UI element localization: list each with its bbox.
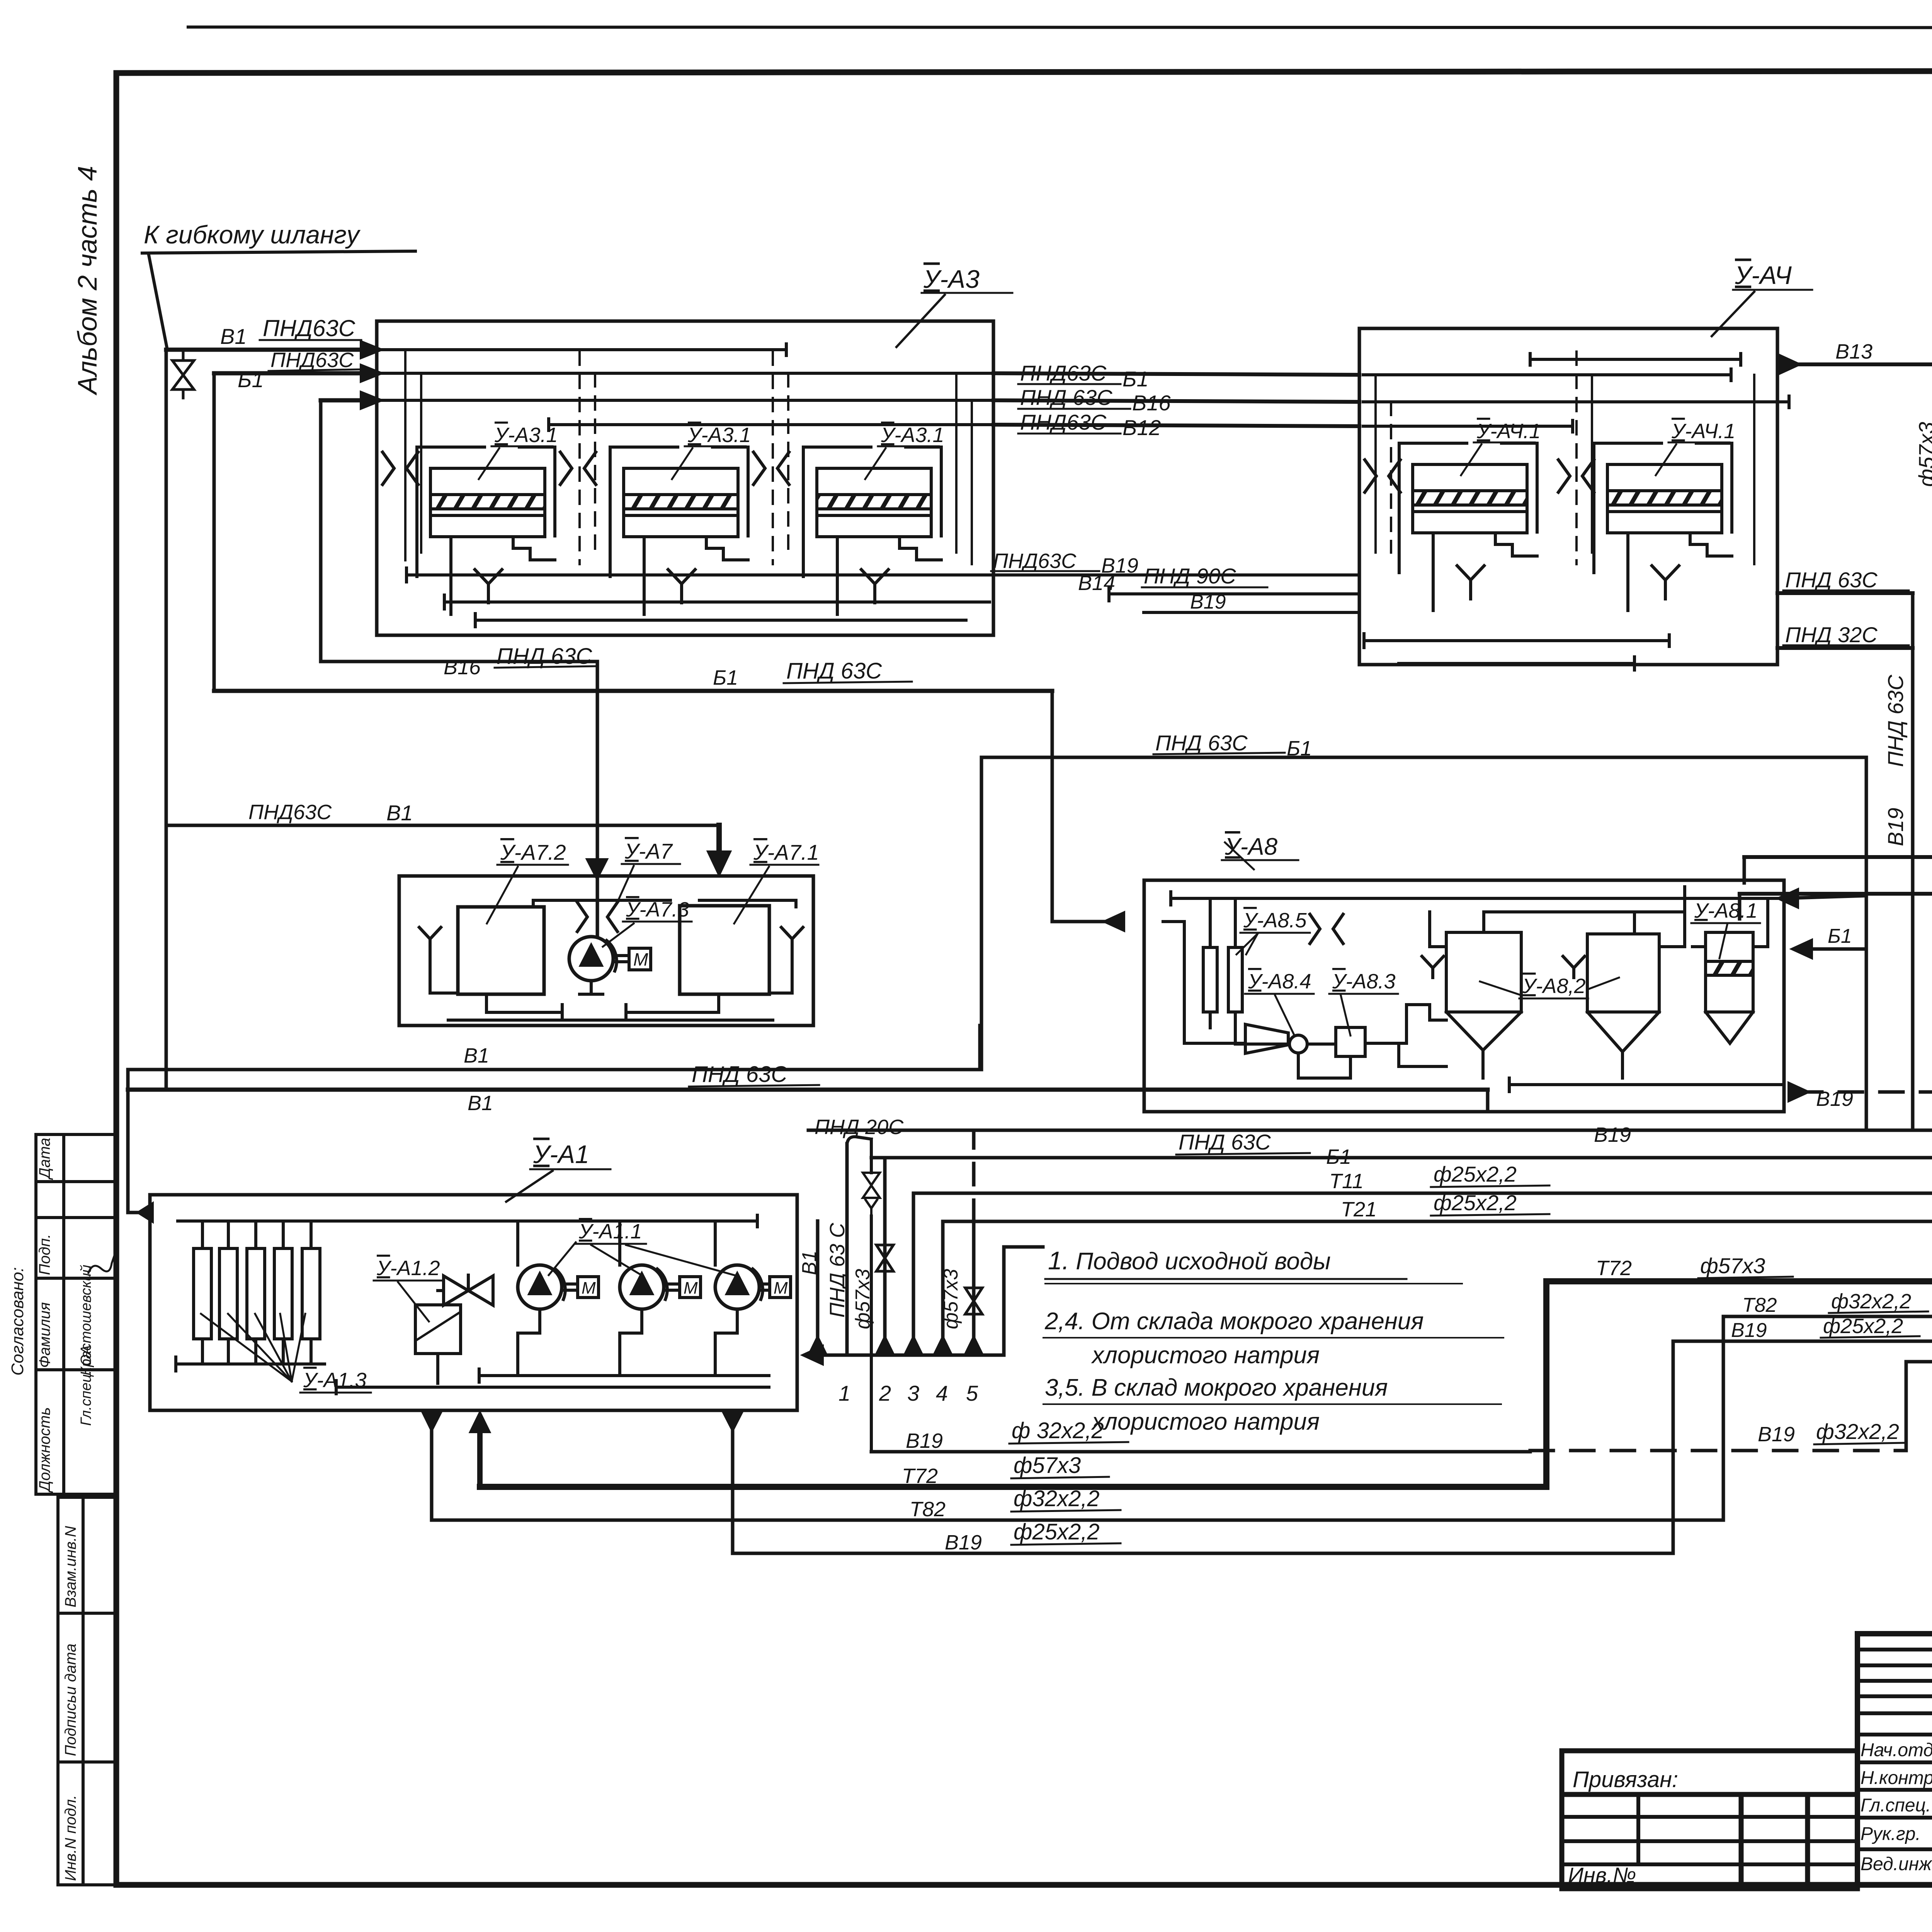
svg-text:В16: В16 [444, 656, 481, 679]
svg-text:ф32х2,2: ф32х2,2 [1816, 1419, 1899, 1444]
bus PND63S B19 lower [990, 549, 1359, 577]
bus Б1 through U-A3 [381, 372, 993, 375]
wire PND63S B1 upper bus [981, 731, 1866, 1070]
label V-A8.5 [1236, 909, 1310, 954]
svg-text:У-А3.1: У-А3.1 [494, 423, 558, 447]
U-A4 bottom manifold [1364, 634, 1669, 670]
Y marks on tanks [1422, 956, 1444, 978]
svg-text:Фамилия: Фамилия [36, 1302, 53, 1368]
svg-text:ф57х3: ф57х3 [940, 1269, 962, 1329]
svg-text:3: 3 [907, 1381, 919, 1405]
filter V-A3.1 unit 1 [417, 423, 558, 614]
U-A4 inner bus Б1 [1363, 369, 1731, 381]
block U-A1 [150, 1140, 797, 1410]
left stamp rotated captions [8, 1138, 119, 1493]
bus B19 lowest gap [1144, 591, 1359, 613]
label V-A7.2 [487, 840, 568, 923]
wire B1 lower bus [128, 1044, 980, 1070]
wire B1 PND63S into U-A3 [166, 315, 381, 357]
wire B13 out of U-A4 [1780, 340, 1932, 373]
svg-text:У-А8.1: У-А8.1 [1694, 899, 1758, 922]
svg-text:У-АЧ.1: У-АЧ.1 [1671, 420, 1735, 443]
wire Б1 PND63S into U-A3 [214, 349, 381, 392]
U-A4 inner stubs [1376, 352, 1754, 564]
svg-text:ПНД 63С: ПНД 63С [1155, 731, 1248, 755]
stub from B19 return down [1743, 857, 1746, 883]
U-A4 inner bus B12 [1363, 420, 1573, 432]
U-A1 filter bars [176, 1221, 325, 1371]
svg-text:В19: В19 [945, 1531, 982, 1554]
svg-text:У-А3: У-А3 [923, 265, 980, 293]
svg-text:Нач.отд.: Нач.отд. [1861, 1740, 1932, 1760]
svg-text:М: М [633, 949, 648, 969]
svg-text:В19: В19 [1758, 1423, 1795, 1446]
svg-text:У-А8.4: У-А8.4 [1248, 970, 1311, 993]
svg-text:Т82: Т82 [910, 1498, 946, 1521]
svg-text:Альбом 2 часть 4: Альбом 2 часть 4 [72, 166, 102, 396]
riser pipe 1 [809, 1221, 850, 1405]
wire T72 thick main [480, 1253, 1932, 1488]
U-A3 bottom manifold lines [406, 568, 990, 627]
bus B12 gap [993, 425, 1359, 426]
riser pipe 5 with valve [940, 1130, 982, 1405]
label V-A7.1 [734, 840, 819, 923]
wire B19 out of U-A8 dashed [1789, 1067, 1932, 1232]
pump V-A1.1 no.1 [518, 1265, 599, 1309]
svg-text:Б1: Б1 [238, 367, 264, 392]
svg-text:3,5. В склад мокрого хранения: 3,5. В склад мокрого хранения [1045, 1374, 1388, 1401]
svg-text:хлористого натрия: хлористого натрия [1091, 1342, 1320, 1369]
svg-text:ф57х3: ф57х3 [1914, 422, 1932, 487]
wire B1 to U-A7 [166, 801, 730, 874]
svg-text:ПНД63С: ПНД63С [993, 549, 1077, 573]
svg-text:В19: В19 [1594, 1123, 1631, 1146]
svg-text:Б1: Б1 [1287, 737, 1312, 760]
svg-text:М: М [582, 1279, 596, 1298]
label V-A8.3 [1329, 970, 1398, 1036]
wire Б1 into U-A8.1 [1793, 925, 1866, 1130]
svg-text:В12: В12 [1122, 415, 1161, 440]
svg-text:ПНД 63С: ПНД 63С [1020, 385, 1112, 410]
wire Б19 vertical right [1740, 611, 1932, 894]
wire T11 bus to box [913, 1162, 1932, 1232]
Привязан box [1562, 1751, 1857, 1889]
label V-A8.2 [1480, 975, 1619, 998]
U-A8 top feeders to tanks [1430, 887, 1768, 947]
svg-text:ПНД 63С: ПНД 63С [1785, 568, 1878, 592]
wire B13 riser to U-A10 [1914, 356, 1932, 487]
svg-text:Гл.спец.: Гл.спец. [1861, 1795, 1931, 1816]
label V-A8.1 [1691, 899, 1760, 958]
U-A1 top inner line [178, 1215, 757, 1227]
svg-text:Инв.N подл.: Инв.N подл. [62, 1795, 79, 1881]
svg-text:К гибкому шлангу: К гибкому шлангу [144, 220, 361, 249]
tank V-A7.2 [458, 907, 544, 994]
svg-text:У-А7.3: У-А7.3 [626, 898, 689, 921]
bus B16 through U-A3 [381, 399, 993, 402]
pump V-A7.3 [569, 937, 651, 981]
svg-text:У-А7.2: У-А7.2 [500, 840, 566, 864]
valve V-A1.2 tilted [444, 1275, 493, 1305]
label V-A7 [618, 839, 680, 900]
svg-text:У-А3.1: У-А3.1 [881, 423, 944, 447]
cone tank V-A8.2 right [1587, 934, 1659, 1078]
svg-text:В13: В13 [1835, 340, 1872, 363]
left stamp lower group [58, 1497, 116, 1885]
svg-text:Т11: Т11 [1329, 1170, 1364, 1193]
cone tank V-A8.2 left [1446, 932, 1521, 1078]
wire PND63S out of U-A4 [1777, 568, 1913, 593]
svg-text:ф57х3: ф57х3 [1700, 1253, 1765, 1278]
wire B19 f32 dashed [871, 1353, 1932, 1452]
svg-text:Т21: Т21 [1341, 1198, 1377, 1221]
svg-text:У-А8.5: У-А8.5 [1243, 909, 1307, 932]
block U-A4 [1359, 261, 1812, 665]
U-A7 inner piping [430, 951, 792, 1020]
svg-text:2,4. От склада мокрого хранени: 2,4. От склада мокрого хранения [1044, 1308, 1424, 1335]
paper top edge [188, 27, 1932, 28]
svg-text:У-А7.1: У-А7.1 [753, 840, 819, 864]
svg-text:У-АЧ: У-АЧ [1735, 261, 1792, 289]
svg-text:2: 2 [879, 1381, 891, 1405]
wire B16 entry arrow [321, 393, 381, 408]
stub from Б19 line down [1738, 894, 1742, 919]
svg-text:ф57х3: ф57х3 [852, 1269, 874, 1329]
U-A4 inner top line [1530, 354, 1741, 365]
svg-text:В19: В19 [1190, 591, 1226, 613]
block U-A3 [377, 265, 1012, 635]
svg-text:Инв.№: Инв.№ [1568, 1863, 1636, 1887]
svg-text:Подписьи дата: Подписьи дата [62, 1644, 79, 1756]
wire B1 riser [165, 350, 168, 1090]
svg-text:Согласовано:: Согласовано: [8, 1267, 27, 1376]
svg-text:Т72: Т72 [1596, 1257, 1632, 1280]
wire PND32S out of U-A4 [1777, 622, 1913, 648]
svg-text:У-А8.3: У-А8.3 [1332, 970, 1396, 993]
notes text [1043, 1246, 1503, 1435]
pump V-A1.1 no.3 [715, 1265, 791, 1309]
svg-text:У-А3.1: У-А3.1 [687, 423, 751, 447]
svg-text:У-А7: У-А7 [624, 839, 673, 863]
vertical labels B1 PND63S [798, 1223, 849, 1318]
U-A7 Y drains [419, 927, 441, 951]
box V-A8.3 [1336, 1027, 1365, 1056]
svg-text:ПНД63С: ПНД63С [248, 801, 332, 824]
svg-text:В14: В14 [1078, 571, 1115, 595]
svg-text:Б1: Б1 [1828, 925, 1852, 947]
filter V-A3.1 unit 2 [610, 423, 751, 614]
wire B19 return line [1744, 769, 1932, 857]
svg-text:У-АЧ.1: У-АЧ.1 [1476, 420, 1541, 443]
svg-text:Б1: Б1 [713, 666, 738, 689]
block U-A8 [1144, 833, 1784, 1112]
svg-text:У-А1.2: У-А1.2 [376, 1257, 440, 1280]
svg-text:У-А1.1: У-А1.1 [578, 1220, 642, 1243]
riser to U-A8 bottom [1486, 1090, 1490, 1112]
label V-A1.1 with leaders [549, 1220, 734, 1275]
wire Б1 path to U-A8 left [1052, 691, 1121, 922]
svg-text:Т72: Т72 [902, 1464, 938, 1488]
U-A1 bottom arrows [423, 1410, 742, 1553]
tank V-A7.1 [680, 906, 769, 994]
bus B12 inner T-start [549, 419, 993, 430]
svg-text:ф57х3: ф57х3 [1014, 1453, 1081, 1478]
svg-text:В1: В1 [798, 1250, 821, 1275]
svg-text:ПНД 90С: ПНД 90С [1144, 564, 1236, 588]
wire B1 long bus PND63S [128, 1062, 1488, 1115]
svg-text:У-А1: У-А1 [533, 1140, 589, 1168]
svg-text:4: 4 [936, 1381, 948, 1405]
svg-text:ПНД 63С: ПНД 63С [497, 644, 592, 669]
bus Б1 gap U-A3..U-A4 [993, 373, 1359, 375]
riser B19/PND63S down right of U-A4 [1883, 593, 1913, 1130]
U-A8 bottom collector [1399, 1043, 1781, 1092]
svg-text:хлористого натрия: хлористого натрия [1091, 1408, 1320, 1435]
wire T82 [432, 1290, 1932, 1521]
svg-text:ф25х2,2: ф25х2,2 [1823, 1315, 1903, 1338]
svg-text:М: М [684, 1279, 698, 1298]
svg-text:ф25х2,2: ф25х2,2 [1014, 1519, 1100, 1544]
valve V1 inlet [172, 350, 194, 398]
inner vertical stubs U-A3 [405, 350, 972, 564]
valve mark U-A8 [1310, 914, 1343, 944]
U-A7 inner top line [533, 900, 796, 907]
svg-text:Б1: Б1 [1326, 1145, 1351, 1168]
svg-text:Подп.: Подп. [36, 1234, 53, 1275]
svg-text:ПНД 63С: ПНД 63С [1883, 675, 1908, 767]
svg-text:Взам.инв.N: Взам.инв.N [62, 1526, 79, 1607]
svg-text:ПНД 63С: ПНД 63С [786, 658, 882, 684]
svg-text:В1: В1 [464, 1044, 489, 1067]
bus B14 PND90S [1078, 564, 1359, 601]
svg-text:Рук.гр.: Рук.гр. [1861, 1824, 1921, 1844]
title block texts [1861, 1655, 1932, 1878]
riser pipe 2 with valve [852, 1158, 893, 1405]
label V-A7.3 [603, 898, 692, 947]
wire collector into U-A1 right [804, 1347, 1004, 1364]
svg-text:ф 32х2,2: ф 32х2,2 [1012, 1418, 1104, 1443]
wire Б1 bus to box [871, 1130, 1932, 1232]
svg-text:ПНД 63С: ПНД 63С [692, 1062, 787, 1087]
wire B19 f25 [733, 1315, 1932, 1554]
riser pipe 4 [934, 1221, 951, 1405]
svg-text:В19: В19 [1883, 808, 1908, 846]
svg-text:Т82: Т82 [1742, 1294, 1777, 1316]
valve marks U-A4 [1365, 460, 1594, 492]
box under V-A1.2 [415, 1291, 461, 1383]
svg-text:В19: В19 [1816, 1087, 1853, 1111]
svg-text:В1: В1 [468, 1092, 493, 1115]
svg-text:ф25х2,2: ф25х2,2 [1434, 1190, 1517, 1215]
TITLE BLOCK [1857, 1634, 1932, 1885]
U-A8 top inner line [1171, 892, 1781, 905]
svg-text:ПНД63С: ПНД63С [263, 315, 355, 341]
svg-text:Вед.инж: Вед.инж [1861, 1854, 1932, 1874]
svg-text:ПНД63С: ПНД63С [270, 349, 354, 372]
svg-text:1. Подвод исходной воды: 1. Подвод исходной воды [1048, 1246, 1331, 1275]
LEFT SIDE STAMP upper group [36, 1134, 116, 1494]
filter V-A4.1 unit 2 [1594, 420, 1735, 611]
svg-text:Дата: Дата [36, 1138, 53, 1180]
svg-text:ф25х2,2: ф25х2,2 [1434, 1162, 1517, 1186]
filter V-A8.1 [1706, 932, 1753, 1043]
svg-text:У-А8: У-А8 [1225, 833, 1278, 860]
pump V-A1.1 no.2 [620, 1265, 701, 1309]
svg-text:ПНД63С: ПНД63С [1020, 410, 1107, 434]
collector step to notes [1004, 1247, 1043, 1355]
wire B16 riser [321, 400, 597, 937]
wire B19 top bus to box [808, 1123, 1932, 1232]
svg-text:ПНД 20С: ПНД 20С [815, 1116, 904, 1139]
U-A1 pump suction piping [336, 1221, 769, 1394]
U-A8 left piping [1163, 898, 1446, 1078]
svg-text:Привязан:: Привязан: [1573, 1767, 1678, 1792]
riser pipe 3 [905, 1193, 922, 1405]
wire Б1 riser [213, 373, 216, 691]
svg-text:В1: В1 [220, 324, 247, 349]
label V-A1.3 with leaders [201, 1314, 371, 1393]
riser PND20S [815, 1116, 904, 1452]
svg-text:ф32х2,2: ф32х2,2 [1014, 1486, 1100, 1511]
svg-text:ф32х2,2: ф32х2,2 [1831, 1290, 1911, 1313]
wire Б1 PND63S mid bus [214, 658, 1052, 691]
svg-text:В1: В1 [386, 801, 413, 825]
svg-text:5: 5 [966, 1381, 978, 1405]
valve mark in U-A7 [577, 902, 617, 932]
block U-A7 [399, 876, 813, 1026]
svg-text:Гл.спец. ОА: Гл.спец. ОА [78, 1345, 94, 1426]
note: К гибкому шлангу [142, 220, 415, 348]
wire T21 bus to box [943, 1190, 1932, 1232]
wire B16 arrow into U-A7 pump [588, 860, 606, 878]
svg-text:Н.контр.: Н.контр. [1861, 1768, 1932, 1788]
filter V-A4.1 unit 1 [1399, 420, 1541, 611]
ejector V-A8.4 [1245, 1024, 1307, 1053]
svg-text:ПНД 63С: ПНД 63С [1179, 1130, 1271, 1154]
svg-text:ПНД 32С: ПНД 32С [1785, 622, 1878, 647]
labels between U-A3 and U-A4 [1018, 361, 1171, 440]
svg-text:Должность: Должность [36, 1407, 53, 1493]
ion column 1 [1203, 947, 1217, 1012]
bus line y905 inner [381, 344, 786, 355]
wire B1 left risers to U-A1 [128, 1070, 152, 1221]
label V-A8.4 [1245, 970, 1314, 1036]
wire V at 2536 to U-A7 bottom [978, 1026, 982, 1070]
svg-text:В19: В19 [1731, 1319, 1767, 1342]
ion column 2 [1228, 947, 1242, 1012]
svg-text:Б1: Б1 [1122, 367, 1149, 391]
svg-text:1: 1 [838, 1381, 850, 1405]
bus B16 gap [993, 400, 1359, 402]
filter V-A3.1 unit 3 [803, 423, 944, 614]
U-A4 inner line B16 [1363, 396, 1789, 408]
valve marks between U-A3 filters [383, 452, 789, 485]
label V-A1.2 [374, 1257, 442, 1321]
svg-text:М: М [774, 1279, 788, 1298]
svg-text:В19: В19 [906, 1429, 943, 1452]
svg-text:У-А8,2: У-А8,2 [1522, 975, 1586, 998]
